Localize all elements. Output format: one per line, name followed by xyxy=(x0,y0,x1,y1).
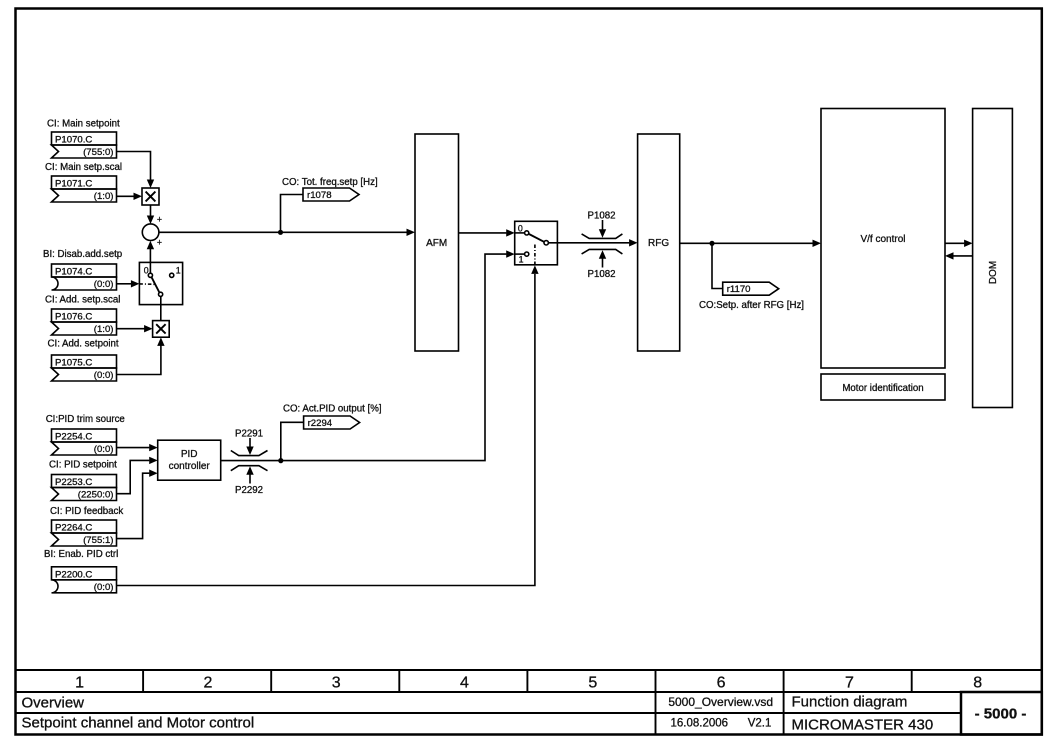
svg-text:V/f control: V/f control xyxy=(860,234,905,245)
wire P2254 to PID controller xyxy=(117,444,158,451)
connector input P2253.C (CI: PID setpoint) xyxy=(49,460,117,501)
svg-text:BI: Enab. PID ctrl: BI: Enab. PID ctrl xyxy=(44,549,118,560)
block PID controller xyxy=(158,440,221,480)
svg-text:(0:0): (0:0) xyxy=(94,279,114,290)
block DOM xyxy=(973,109,1013,408)
connector input P1070.C (CI: Main setpoint) xyxy=(47,119,120,159)
output connector r1078 (CO: Tot. freq.setp [Hz]) xyxy=(282,177,378,201)
svg-text:7: 7 xyxy=(845,675,854,692)
block V/f control xyxy=(821,109,945,369)
title block column lines (number row) xyxy=(143,670,912,692)
svg-text:+: + xyxy=(157,238,162,248)
connector input P2264.C (CI: PID feedback) xyxy=(50,506,123,546)
wire DOM to V/f control xyxy=(945,252,973,259)
svg-text:P1074.C: P1074.C xyxy=(55,267,92,278)
svg-text:AFM: AFM xyxy=(426,238,447,249)
svg-text:P1075.C: P1075.C xyxy=(55,358,92,369)
svg-text:(2250:0): (2250:0) xyxy=(78,490,114,501)
wire switch S1 common to multiplier X2 xyxy=(160,296,162,321)
svg-text:CO: Tot. freq.setp [Hz]: CO: Tot. freq.setp [Hz] xyxy=(282,177,378,188)
svg-text:PID: PID xyxy=(181,449,198,460)
svg-text:- 5000 -: - 5000 - xyxy=(975,706,1027,723)
wire PID controller to switch S2 input 1 xyxy=(221,250,515,460)
wire switch S1 terminal 0 to summing point xyxy=(147,241,154,273)
svg-text:P2200.C: P2200.C xyxy=(55,569,92,580)
svg-text:(1:0): (1:0) xyxy=(94,191,114,202)
svg-text:CI: PID feedback: CI: PID feedback xyxy=(50,506,123,517)
wire RFG to V/f control xyxy=(680,240,821,247)
limiter fmax P1082 (lower) xyxy=(582,249,623,279)
wire P1076 to multiplier X2 xyxy=(117,325,153,332)
svg-text:P2291: P2291 xyxy=(235,429,263,440)
block RFG (ramp function generator) xyxy=(638,134,680,351)
svg-text:controller: controller xyxy=(169,461,211,472)
svg-text:CO:Setp. after RFG [Hz]: CO:Setp. after RFG [Hz] xyxy=(699,300,804,311)
output connector r1170 (CO:Setp. after RFG [Hz]) xyxy=(699,282,804,311)
svg-text:1: 1 xyxy=(176,266,181,276)
dash-dot control line inside S1 xyxy=(139,283,154,285)
svg-text:P2254.C: P2254.C xyxy=(55,432,92,443)
svg-text:(1:0): (1:0) xyxy=(94,324,114,335)
block AFM xyxy=(415,134,459,351)
wire switch S2 to RFG xyxy=(548,239,637,246)
switch S2 (PID / normal setpoint select) xyxy=(515,221,558,264)
svg-text:(755:1): (755:1) xyxy=(83,535,113,546)
summing point (adder) xyxy=(142,214,162,247)
svg-text:CI: Add. setpoint: CI: Add. setpoint xyxy=(48,339,119,350)
svg-text:(0:0): (0:0) xyxy=(94,370,114,381)
svg-text:CI: Main setp.scal: CI: Main setp.scal xyxy=(45,162,122,173)
svg-text:P1071.C: P1071.C xyxy=(55,179,92,190)
multiplier X2 xyxy=(153,321,170,338)
wire P1074 to switch S1 control xyxy=(117,280,140,287)
wire summing point to AFM xyxy=(159,229,415,236)
svg-text:r2294: r2294 xyxy=(308,418,333,429)
svg-text:(755:0): (755:0) xyxy=(83,147,113,158)
connector input P2254.C (CI:PID trim source) xyxy=(46,414,125,455)
page number cell xyxy=(961,692,1042,735)
title block row lines xyxy=(16,670,1042,713)
svg-text:+: + xyxy=(157,214,162,224)
block Motor identification xyxy=(821,374,945,400)
svg-text:Function diagram: Function diagram xyxy=(792,694,908,711)
svg-text:(0:0): (0:0) xyxy=(94,582,114,593)
switch S1 (add-setpoint disable) xyxy=(139,262,182,304)
wire AFM to switch S2 input 0 xyxy=(459,229,515,236)
svg-text:1: 1 xyxy=(75,675,84,692)
svg-text:DOM: DOM xyxy=(988,261,999,284)
svg-text:3: 3 xyxy=(332,675,341,692)
svg-text:5000_Overview.vsd: 5000_Overview.vsd xyxy=(668,695,773,709)
svg-text:16.08.2006: 16.08.2006 xyxy=(671,718,729,730)
multiplier X1 xyxy=(142,188,159,205)
connector input P1074.C (BI: Disab.add.setp) xyxy=(43,249,122,290)
svg-text:CI: PID setpoint: CI: PID setpoint xyxy=(49,460,117,471)
svg-text:Motor identification: Motor identification xyxy=(842,383,923,394)
svg-text:8: 8 xyxy=(973,675,982,692)
svg-text:P2264.C: P2264.C xyxy=(55,523,92,534)
limiter fmax P1082 (upper) xyxy=(582,211,623,239)
svg-text:P1070.C: P1070.C xyxy=(55,135,92,146)
svg-text:4: 4 xyxy=(460,675,469,692)
wire P1070 to multiplier X1 xyxy=(117,152,155,189)
svg-text:1: 1 xyxy=(519,255,524,265)
limiter P2291 (upper) xyxy=(231,429,268,456)
svg-text:CI: Main setpoint: CI: Main setpoint xyxy=(47,119,120,130)
svg-text:BI: Disab.add.setp: BI: Disab.add.setp xyxy=(43,249,122,260)
wire X1 to summing point xyxy=(147,205,154,224)
connector input P2200.C (BI: Enab. PID ctrl) xyxy=(44,549,118,593)
svg-text:P1082: P1082 xyxy=(587,211,615,222)
wire control P2200 to switch S2 xyxy=(117,265,539,585)
connector input P1076.C (CI: Add. setp.scal) xyxy=(45,295,120,336)
node at r1170 branch xyxy=(709,241,714,246)
svg-text:P1076.C: P1076.C xyxy=(55,312,92,323)
limiter P2292 (lower) xyxy=(231,466,268,496)
wire branch to r2294 xyxy=(281,422,304,460)
svg-text:RFG: RFG xyxy=(648,238,669,249)
svg-text:6: 6 xyxy=(717,675,726,692)
wire P2264 to PID controller xyxy=(117,470,158,539)
wire P1071 to multiplier X1 xyxy=(117,193,143,200)
svg-text:(0:0): (0:0) xyxy=(94,444,114,455)
wire V/f control to DOM xyxy=(945,240,973,247)
svg-text:CI: Add. setp.scal: CI: Add. setp.scal xyxy=(45,295,120,306)
svg-text:CI:PID trim source: CI:PID trim source xyxy=(46,414,125,425)
output connector r2294 (CO: Act.PID output [%]) xyxy=(283,404,382,430)
connector input P1071.C (CI: Main setp.scal) xyxy=(45,162,122,202)
svg-text:P2292: P2292 xyxy=(235,485,263,496)
column numbers 1-8 xyxy=(75,675,982,692)
svg-text:P2253.C: P2253.C xyxy=(55,477,92,488)
node at r2294 branch xyxy=(278,458,283,463)
connector input P1075.C (CI: Add. setpoint) xyxy=(48,339,119,382)
wire P2253 to PID controller xyxy=(117,457,158,494)
svg-text:r1170: r1170 xyxy=(727,284,751,295)
svg-text:5: 5 xyxy=(588,675,597,692)
svg-text:MICROMASTER 430: MICROMASTER 430 xyxy=(792,717,934,734)
svg-text:CO: Act.PID output [%]: CO: Act.PID output [%] xyxy=(283,404,382,415)
svg-text:Setpoint channel and Motor con: Setpoint channel and Motor control xyxy=(22,715,255,732)
title block column lines (text rows) xyxy=(656,692,784,735)
svg-text:2: 2 xyxy=(203,675,212,692)
svg-text:r1078: r1078 xyxy=(307,190,332,201)
svg-text:P1082: P1082 xyxy=(587,269,615,280)
wire P1075 to multiplier X2 xyxy=(117,337,165,374)
svg-text:V2.1: V2.1 xyxy=(748,718,772,730)
wire branch to r1078 xyxy=(281,195,304,233)
svg-text:Overview: Overview xyxy=(22,695,85,712)
wire branch to r1170 xyxy=(712,243,723,288)
node at r1078 branch xyxy=(278,230,283,235)
date and version cell xyxy=(671,718,772,730)
